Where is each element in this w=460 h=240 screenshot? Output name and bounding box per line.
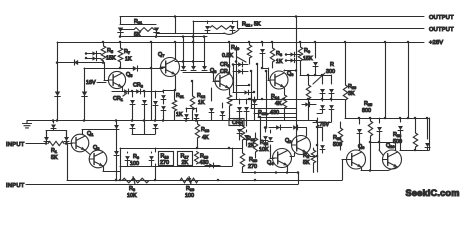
wire y75 tie: [300, 75, 331, 77]
diode colB: [144, 91, 146, 97]
wire h y92 jog: [242, 92, 254, 94]
svg-text:Q8: Q8: [210, 68, 216, 74]
resistor R22: [210, 26, 233, 30]
diode row d2: [191, 66, 196, 70]
svg-text:4K: 4K: [202, 135, 209, 141]
resistor R5: [103, 42, 105, 46]
svg-text:CR3: CR3: [133, 83, 143, 89]
svg-text:Q10: Q10: [386, 143, 395, 149]
diode CR2 d: [233, 64, 248, 66]
wire Q1-Q3 join: [85, 150, 90, 155]
svg-text:R19: R19: [200, 154, 208, 160]
diode q2d: [270, 130, 272, 133]
diode mcB: [246, 99, 248, 104]
resistor R14: [282, 95, 286, 108]
diode CR4 d: [233, 71, 248, 73]
svg-text:CR1: CR1: [113, 96, 123, 102]
svg-text:1K: 1K: [198, 100, 205, 106]
diode CR3 d: [124, 89, 128, 94]
label box frame 1: [159, 152, 174, 166]
wire mid y99: [229, 99, 345, 101]
wire step3: [258, 117, 296, 119]
wire Q8 emitter: [229, 88, 231, 95]
svg-text:Q5: Q5: [126, 72, 132, 78]
wire v x260: [260, 117, 262, 144]
transistor Q9: [347, 150, 366, 169]
wire Q6 base: [268, 80, 270, 82]
transistor Q2: [292, 136, 311, 155]
diode mcE: [246, 130, 248, 132]
wire Q3 emitter out: [103, 166, 105, 172]
svg-text:INPUT: INPUT: [6, 183, 25, 189]
svg-text:2K: 2K: [182, 160, 189, 166]
diode left col: [55, 92, 61, 96]
svg-text:+28V: +28V: [429, 40, 443, 46]
svg-text:R2: R2: [303, 153, 309, 159]
resistor R7: [120, 42, 122, 48]
transistor Q10: [383, 150, 402, 169]
diode q2b: [293, 125, 297, 130]
diode mcA: [239, 99, 241, 104]
wire v x317: [317, 127, 319, 172]
svg-text:R8: R8: [276, 51, 282, 57]
diode input arrows: [86, 53, 101, 55]
diode CR under R21 right: [154, 28, 160, 32]
resistor R1: [48, 141, 64, 145]
svg-text:R6: R6: [304, 48, 310, 54]
wire R21 top stub: [120, 17, 122, 25]
resistor R2b: [313, 148, 315, 150]
wire left vertical: [57, 42, 59, 121]
svg-text:R: R: [330, 62, 334, 68]
wire box top: [120, 148, 242, 150]
wire v x233: [233, 64, 235, 92]
diode x322: [322, 75, 324, 84]
svg-text:R18: R18: [161, 154, 169, 160]
wire q10 top: [395, 142, 397, 150]
svg-text:5K: 5K: [134, 32, 141, 38]
diode CR under R22 right: [230, 26, 235, 30]
svg-text:5K: 5K: [51, 155, 58, 161]
wire +28V rail: [57, 42, 424, 44]
diode x315: [315, 42, 317, 58]
svg-text:Q2: Q2: [285, 138, 291, 144]
wire arc hop: [224, 30, 239, 35]
wire R21 bottom: [120, 32, 122, 37]
transistor Q8: [215, 72, 233, 90]
wire diode row bottom: [183, 72, 213, 74]
wire emitter bus: [361, 167, 363, 171]
svg-text:Q1: Q1: [87, 131, 93, 137]
wire v x84: [84, 68, 86, 121]
diode y62.6 left: [74, 60, 78, 65]
svg-text:5K: 5K: [303, 160, 310, 166]
svg-text:15K: 15K: [303, 56, 313, 62]
transistor Q7: [161, 58, 180, 77]
resistor R23: [415, 118, 417, 133]
resistor R13: [197, 121, 199, 125]
diode mcC: [254, 97, 256, 99]
svg-text:10K: 10K: [127, 193, 137, 199]
wire q10 base stub: [379, 142, 381, 150]
diode bot right: [205, 165, 220, 167]
wire v x251b: [251, 71, 253, 99]
diode x84: [82, 92, 88, 96]
wire step2: [251, 108, 296, 110]
svg-text:R11: R11: [176, 93, 184, 99]
resistor R6: [300, 42, 302, 47]
resistor R24: [340, 122, 342, 128]
wire q2 emitter: [306, 152, 310, 156]
wire Q7 emitter: [175, 76, 177, 90]
svg-text:Q3: Q3: [93, 145, 99, 151]
svg-text:15K: 15K: [106, 56, 116, 62]
diode row d1: [181, 66, 186, 70]
ground: [26, 121, 28, 124]
wire Q6 emitter: [284, 88, 286, 95]
wire Q7 base stub: [160, 67, 165, 69]
wire input box: [46, 130, 66, 132]
transistor Q1: [71, 134, 89, 152]
diode gnd1: [51, 125, 56, 129]
resistor R12b: [255, 133, 257, 138]
wire input2: [26, 184, 298, 186]
wire mid y120 ground rail: [27, 120, 317, 122]
wire Q7 collector: [175, 42, 177, 59]
wire v x236: [236, 46, 238, 99]
wire Q1 collector: [82, 130, 84, 135]
wire box bottom: [120, 166, 232, 168]
diode ro1: [359, 118, 361, 124]
svg-text:CR4: CR4: [220, 69, 231, 75]
diode CR5 d: [136, 89, 140, 94]
wire v x151: [151, 42, 153, 121]
resistor R8: [272, 42, 274, 48]
svg-text:Q6: Q6: [287, 71, 293, 77]
wire q4 emitter: [287, 166, 289, 173]
svg-text:R26: R26: [348, 84, 356, 90]
resistor R21: [120, 29, 134, 31]
wire ro join: [400, 150, 429, 152]
diode y68: [133, 66, 137, 71]
diode col x163: [163, 90, 165, 93]
svg-text:R9: R9: [133, 154, 139, 160]
svg-text:1K: 1K: [276, 59, 283, 65]
resistor R19z: [195, 152, 199, 165]
wire q4 base: [270, 158, 274, 160]
label box frame 2: [178, 152, 193, 166]
wire Q6 collector: [296, 17, 298, 139]
svg-text:300: 300: [326, 69, 335, 75]
wire q9 base feedback: [342, 160, 344, 181]
wire Q8 base: [213, 81, 220, 83]
wire mid y68: [84, 68, 163, 70]
diode arrows to R6: [286, 54, 300, 56]
wire upper y62.6: [57, 62, 104, 64]
diode row d3: [202, 66, 207, 70]
wire v x317 upper: [317, 118, 319, 127]
resistor R11: [174, 90, 176, 100]
svg-text:R20: R20: [231, 45, 239, 51]
wire mid right y118: [345, 118, 429, 120]
svg-text:OUTPUT: OUTPUT: [429, 15, 454, 21]
diode q2c: [265, 128, 267, 133]
resistor R3 pot: [122, 178, 149, 183]
wire mid v x196 diode: [196, 108, 198, 112]
diode q2a: [269, 127, 292, 129]
diode x222: [222, 103, 224, 108]
wire CR row: [112, 91, 163, 93]
wire v x262b: [262, 58, 264, 68]
resistor R18: [242, 121, 244, 127]
diode ro2: [379, 118, 381, 123]
svg-text:R7: R7: [124, 49, 130, 55]
diode CR under R22 left: [205, 26, 210, 30]
svg-text:R12: R12: [197, 93, 205, 99]
wire input1: [26, 143, 46, 145]
resistor R12: [192, 81, 194, 96]
diode in2: [64, 137, 69, 141]
wire v x116 diodes: [116, 121, 118, 181]
transistor Q6: [270, 71, 288, 89]
diode pair y104: [302, 104, 316, 106]
svg-text:10K: 10K: [259, 147, 269, 153]
svg-text:100: 100: [185, 193, 194, 199]
transistor Q4: [273, 149, 292, 168]
svg-text:OUTPUT: OUTPUT: [429, 27, 454, 33]
svg-text:, 5K: , 5K: [251, 22, 261, 28]
resistor R20: [249, 42, 251, 45]
resistor R25: [370, 118, 372, 121]
diode x211: [211, 88, 213, 101]
diode x262: [262, 42, 264, 46]
wire Q5 base feed: [104, 63, 106, 80]
wire v x408: [408, 42, 410, 118]
svg-text:R5: R5: [107, 48, 113, 54]
svg-text:R3: R3: [129, 186, 135, 192]
diode q2e: [322, 127, 324, 141]
diode mcD: [239, 122, 241, 126]
diode R9 right: [151, 152, 153, 153]
wire colBottom: [132, 134, 155, 136]
svg-text:R21: R21: [134, 19, 142, 25]
diode R9 left: [127, 152, 129, 153]
wire mid y33: [156, 33, 224, 35]
resistor R300: [308, 75, 310, 85]
wire step1: [254, 113, 296, 115]
wire mid v x186 diodes: [186, 108, 188, 112]
wire box verticals: [120, 148, 122, 180]
wire R22 box: [193, 21, 237, 23]
svg-text:4K: 4K: [275, 101, 282, 107]
svg-text:270: 270: [160, 160, 169, 166]
wire v x67 feedback: [67, 144, 69, 181]
svg-text:800: 800: [362, 108, 371, 114]
svg-text:R10: R10: [186, 186, 194, 192]
wire diode row top: [175, 61, 204, 63]
wire output rail 1: [120, 16, 424, 18]
wire to Q1: [66, 143, 72, 145]
diode x331: [331, 75, 333, 84]
wire v x257: [257, 64, 259, 99]
diode ro4: [427, 118, 429, 139]
resistor R26: [345, 42, 347, 85]
diode in1: [44, 137, 49, 141]
svg-text:R1: R1: [51, 148, 57, 154]
resistor R10 pot: [180, 178, 198, 183]
wire q4 emitter bus: [242, 172, 298, 174]
svg-text:R25: R25: [364, 101, 372, 107]
svg-text:R22: R22: [242, 22, 250, 28]
transistor Q5: [108, 71, 125, 88]
diode ro3: [400, 118, 402, 122]
svg-text:1K: 1K: [176, 112, 183, 118]
wire bottom y180: [67, 180, 342, 182]
svg-text:INPUT: INPUT: [6, 142, 25, 148]
diode CR under R21 left: [118, 28, 124, 32]
wire v x266: [266, 71, 268, 128]
svg-text:270: 270: [248, 164, 257, 170]
wire q10 emitter link: [388, 167, 397, 171]
wire Q8 collector: [229, 42, 231, 74]
svg-text:CR2: CR2: [220, 62, 230, 68]
resistor R20b: [242, 148, 244, 153]
svg-text:1K: 1K: [125, 57, 132, 63]
svg-text:0.5K: 0.5K: [222, 53, 233, 59]
svg-text:R17: R17: [181, 154, 189, 160]
svg-text:Q7: Q7: [158, 52, 164, 58]
svg-text:SeekIC.com: SeekIC.com: [406, 188, 460, 198]
svg-text:16V: 16V: [86, 80, 96, 86]
wire R300 pointer: [313, 73, 325, 84]
wire output rail 2: [238, 28, 424, 30]
svg-text:R13: R13: [201, 127, 209, 133]
transistor Q3: [89, 150, 107, 168]
svg-text:Q4: Q4: [267, 160, 274, 166]
wire q9 top: [359, 141, 361, 150]
wire h y85 jog: [236, 85, 249, 87]
wire v x385: [385, 42, 387, 118]
wire q2 base link: [294, 153, 296, 156]
svg-text:3K: 3K: [348, 91, 355, 97]
resistor R15 q8emitter: [227, 95, 231, 106]
diode colC: [155, 91, 157, 98]
diode colA: [132, 91, 134, 97]
